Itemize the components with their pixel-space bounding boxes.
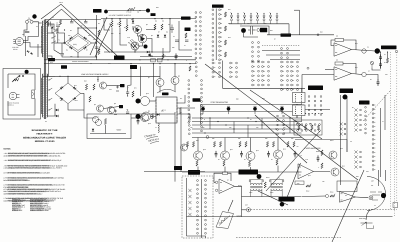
svg-text:+: + [126,109,127,111]
resistor R96 [304,125,306,130]
resistor R80 [13,78,19,81]
svg-text:0-05 COLLECTOR SWEEP: 0-05 COLLECTOR SWEEP [30,201,50,203]
title line 4 [35,140,55,142]
label SWEEP SUPPLY [109,15,132,17]
svg-text:4.7K 2W: 4.7K 2W [126,11,131,13]
svg-text:100: 100 [88,35,90,37]
svg-text:A MILL EQUAL FOR THE PARTICULA: A MILL EQUAL FOR THE PARTICULAR CIRCUIT … [4,167,63,169]
resistor R9 [161,24,163,30]
wire long diagonal A [41,4,119,57]
note line 3 [4,160,62,162]
switch SW9 X contacts upper [354,108,361,131]
svg-text:1: 1 [230,12,231,14]
connector J2 box [293,105,306,116]
switch SW9b X contacts [340,123,346,136]
node U5 out [369,196,373,200]
label mode switch (black) [174,166,182,170]
wire HV rail vertical [96,15,98,60]
node U2 in [307,67,309,69]
svg-text:Q8: Q8 [178,75,180,77]
wire cal res [12,76,19,82]
svg-text:D22: D22 [60,100,63,102]
diode D6 [132,21,134,23]
node BR1 out dots [64,27,97,57]
svg-text:● THIS SYMBOL INDICATES A WIR: ● THIS SYMBOL INDICATES A WIRE PASS CONN… [4,184,65,186]
wire U2 out right [366,75,378,81]
svg-text:100: 100 [68,35,70,37]
svg-text:Q2: Q2 [151,35,153,37]
svg-text:Q13: Q13 [283,148,286,150]
svg-text:U4: U4 [227,179,229,181]
capacitor C22 [267,151,270,158]
AC plug P2 [9,92,19,100]
wire cluster bottom [244,33,259,37]
terminal strip TS3b [195,62,197,77]
diode D2 [83,37,86,40]
svg-text:- ALL RESISTORS ARE 1/2 WATT: - ALL RESISTORS ARE 1/2 WATT UNLESS OTHE… [4,153,66,155]
winding taps arrows [48,78,52,110]
svg-text:AND CONTROLLED ART IN OHMS (K=: AND CONTROLLED ART IN OHMS (K=1000 OHMS,… [4,155,61,157]
svg-text:● THIS SYMBOL INDICATES A JUN: ● THIS SYMBOL INDICATES A JUNCTION OF CL… [4,177,64,179]
IC1 block [155,97,177,123]
transistor Q21 [97,105,104,112]
switch SW10 shaft 2 [200,179,202,238]
wire lv link 3 [107,85,121,87]
wire Q11 collector [224,138,226,152]
resistor R31 emitter [223,161,225,167]
svg-text:D3: D3 [66,49,68,51]
transformer T1 primary winding upper [41,21,44,57]
svg-text:22K: 22K [283,127,286,129]
potentiometer VR8 [343,95,348,100]
wire lv vert b [128,67,131,86]
box bias supply outline [295,181,304,185]
connector J1 box [293,93,306,103]
wire chop riser 1 [340,95,342,185]
node U2 out [362,72,366,76]
svg-text:+12: +12 [296,146,298,148]
screen grid node [104,10,108,14]
wire BR2 bottom [68,104,84,110]
svg-text:F1: F1 [28,17,30,19]
resistor R61 [89,96,91,102]
svg-text:D8: D8 [166,31,168,33]
svg-text:1 MEG 2 STEP CURRENT: 1 MEG 2 STEP CURRENT [30,210,49,212]
label -27V (black) [48,58,55,61]
junction dot row under SW8 [298,113,322,114]
switch SW7 lower col B [283,115,285,135]
note line 5 [4,167,63,169]
svg-text:POWER TRANSFORMER: POWER TRANSFORMER [72,61,88,63]
diode D22 [60,97,63,100]
capacitor C41 plus [114,110,117,115]
svg-text:STEP GENERATOR: STEP GENERATOR [211,102,228,104]
table row 6 col 2 [30,208,51,210]
wire sweep lower rail [140,56,192,58]
capacitor C21 [240,151,243,158]
switch SW10 X contacts [188,189,191,216]
transistor Q10 [194,151,203,160]
wire U1 fb left [331,40,335,46]
table row 1 mass [12,199,46,200]
transformer T1 inner winding upper [40,26,43,53]
switch SW4 col A [252,42,254,62]
potentiometer VR3 [253,106,257,114]
svg-text:1M: 1M [336,35,338,37]
svg-text:1W: 1W [137,11,139,13]
transistor Q23 [156,79,164,87]
wire switch to transformer [33,22,39,37]
op-amp U5 [340,192,356,203]
note line 1 text mass [8,153,49,154]
svg-text:C40: C40 [109,89,112,91]
note line 6 [4,172,51,174]
capacitor C15 [84,22,87,23]
table row 2 col 2 [30,201,50,203]
svg-text:1K: 1K [271,159,273,161]
capacitor C9 electrolytic [241,28,246,33]
wire secondary tap 1 [48,23,52,25]
svg-text:LOW VOLTAGE POWER SUPPLY: LOW VOLTAGE POWER SUPPLY [81,74,109,76]
label BR1 rating [73,44,77,46]
svg-text:BOARD CONNECTOR TERMINAL.: BOARD CONNECTOR TERMINAL. [4,179,31,181]
heatsink Q3 scribble [130,39,140,51]
svg-text:EXT: EXT [245,204,248,206]
node lower rail [151,56,176,57]
node cal [19,75,24,77]
op-amp U3 chop [298,164,314,179]
note line 7 [4,177,64,179]
svg-text:R21: R21 [355,43,358,45]
diode D8 [164,35,166,37]
node rails dots [48,59,191,64]
capacitor C2 doubler [49,22,51,27]
terminal strip TS2 [188,116,190,135]
wire step rail 1 [192,117,302,119]
wire lv riser x48 [48,61,50,76]
svg-text:2.2K: 2.2K [127,37,130,39]
svg-text:Q31: Q31 [342,165,345,167]
diode D3 [69,46,72,49]
resistor R46 [266,142,268,148]
potentiometer VR10 position [361,222,374,229]
wire sweep inner 2 [111,19,113,21]
wire fuse drop [24,23,27,36]
label LOW VOLTAGE POWER SUPPLY [81,74,109,76]
neon lamp NE1 [32,90,35,99]
wire crt to U4 [228,200,233,212]
connector J3 [246,208,250,212]
svg-text:+300V: +300V [116,129,121,131]
label STEP ZERO (black) [359,101,370,105]
wire step rail 5 [192,132,302,134]
note line 4 [4,165,68,167]
bridge rectifier BR1 outline [65,34,92,53]
note line 3 text mass [8,160,51,161]
table row 5 mass [12,206,43,207]
label TS3 (black) [193,98,201,102]
node r10 [127,10,140,11]
svg-text:NOTES:: NOTES: [4,148,12,150]
wire bottom dashed [236,237,341,239]
wire c15 stub [85,20,87,22]
table row 4 mass [12,205,42,206]
table row 2 col 1 [12,201,23,203]
wire U4 fb [214,173,223,182]
svg-text:D4: D4 [86,49,88,51]
wire Q13 emitter [277,166,279,173]
wire diagonal cross C [90,17,107,55]
svg-text:Q5: Q5 [94,104,96,106]
note line 12 text mass [8,191,47,192]
table row 1 col 1 [12,199,26,201]
wire long diagonal B [45,9,110,52]
svg-text:J4: J4 [382,121,384,123]
svg-text:D7: D7 [158,31,160,33]
svg-text:D30: D30 [356,176,359,178]
wire plug to fuse [24,37,39,41]
resistor R12 range [224,26,226,31]
inductor L1 [158,123,159,133]
wire q cluster 3 [132,19,134,22]
label VERT ATTEN (black) [281,34,292,37]
wire Q11 emitter [224,167,226,173]
svg-text:Q7: Q7 [148,77,150,79]
svg-text:22K: 22K [229,127,232,129]
wire right riser B [384,95,386,130]
note line 2 text mass [8,155,47,156]
label HORIZ SELECTOR (black) [308,86,323,91]
svg-text:Q10: Q10 [203,149,206,151]
handwritten change note line 2 [148,138,160,143]
resistor R113 [330,194,335,197]
switch SW1 knob [32,14,36,18]
switch SW10 col A [197,180,199,235]
note line 13 text mass [8,193,37,194]
svg-text:5: 5 [256,12,257,14]
svg-text:15: 15 [384,62,386,64]
svg-text:Q8: Q8 [148,110,150,112]
resistor R91 feedback box [335,62,343,65]
wire hv inner 2 [62,55,78,57]
transistor Q11 [221,151,230,160]
resistor R74 [179,108,181,114]
svg-text:R13: R13 [228,37,231,39]
capacitor C51 [379,61,382,68]
diode D21 [73,86,76,89]
CRT grid terminal [381,193,386,198]
svg-text:ETCHED CIRCUIT BOARD FOIL.: ETCHED CIRCUIT BOARD FOIL. [4,186,30,188]
label 60Hz [13,49,17,51]
step rail vertical drops [210,118,290,138]
wire to terminals [169,19,171,52]
label bias (black) [162,93,169,96]
title line 3 [23,137,66,140]
wire BR2 top [67,76,69,83]
label +27V (black) [61,65,67,69]
svg-text:1M: 1M [336,59,338,61]
transformer T1 primary winding lower [41,74,44,117]
svg-text:R112: R112 [306,190,309,192]
diode D4 [83,46,86,49]
node c11 left [257,29,260,32]
svg-text:R11: R11 [228,9,231,11]
switch SW8 col 3 [314,96,316,116]
component value annotations [22,2,388,207]
table row 6 col 1 [12,208,21,210]
handwritten change note line 1 [144,133,156,138]
svg-text:O THIS SYMBOL INDICATES A SOL: O THIS SYMBOL INDICATES A SOLDER LUG AND… [4,189,66,191]
wire U5 out [356,196,369,199]
wire sweep vertical 2 [120,28,127,46]
switch SW3 contact row [231,13,279,24]
wire right riser C dotted [390,52,392,209]
capacitor C30 [137,118,140,125]
wire c14 stub [71,20,73,22]
wire emitter Q3 [134,50,136,52]
label -12V reg (black) [119,105,123,108]
label +12V (black) [130,65,137,69]
wire Q12 collector [250,138,252,152]
wire step rail 4 [192,128,302,130]
wire ic link 2 [151,116,157,118]
capacitor C42 [126,90,129,96]
potentiometer VR11 [370,61,373,67]
wire U2 in [302,74,334,76]
wire U5 in [302,195,326,198]
title line 2 [36,133,52,135]
diode D20 [60,86,63,89]
handwriting underline [146,136,159,143]
wire r17 up [162,48,164,54]
svg-text:R: R [204,119,205,121]
svg-text:7: 7 [269,12,270,14]
node j2 [395,50,397,52]
resistor R5 [111,21,113,27]
connector J5 [393,203,398,208]
capacitor C52 [377,79,380,86]
wire sweep bottom rail [104,51,170,53]
wire SW3 common rail [229,23,289,25]
svg-text:R10: R10 [156,7,159,9]
switch SW2 wafer col B [219,9,222,61]
wire hv inner 1 [61,43,63,54]
svg-text:POSITION: POSITION [359,218,366,220]
diode D12 [92,129,94,131]
resistor R50 [104,119,106,125]
svg-text:CRT: CRT [371,180,374,182]
svg-text:SEMICONDUCTOR CURVE TRACER: SEMICONDUCTOR CURVE TRACER [23,137,66,140]
svg-text:1K: 1K [218,159,220,161]
svg-text:0/80 STEPS PER FAMILY: 0/80 STEPS PER FAMILY [30,203,49,205]
wire ext dashed [251,208,397,210]
transistor Q2 wedge [141,37,146,42]
capacitor C43 [126,112,129,113]
table row 7 col 1 [12,210,22,212]
switch SW8 col 1 [302,96,304,116]
capacitor C23 [294,151,297,158]
wire chop riser 2 [346,98,348,152]
title line 1 [32,129,58,131]
switch SW7 wafer col D [297,61,299,90]
svg-text:6.3: 6.3 [45,121,47,123]
resistor R110 [264,182,266,188]
wire tap link [51,24,53,33]
table row 6 mass [12,208,44,209]
wire U2 fb loop [343,64,356,74]
wire ic link 1 [150,100,157,102]
arrow tap [51,26,54,29]
resistor R17 [162,54,164,59]
svg-text:1K: 1K [244,159,246,161]
wire U1 out [352,50,376,52]
svg-text:10K: 10K [238,138,241,140]
transistor Q9 [181,144,188,151]
node BR1 left [64,42,66,44]
svg-text:IN: IN [250,119,251,121]
capacitor C1 line filter [25,32,30,33]
wire long diagonal D4 [255,115,307,163]
diode D1 [69,37,72,40]
svg-text:1K: 1K [370,79,372,81]
node lv caps [127,95,128,110]
terminal strip TS3 [201,80,203,132]
wire long diagonal D1b [250,90,322,139]
wire crt feed 2 [385,170,387,181]
wire U4 out [235,186,242,216]
svg-text:C5: C5 [93,39,95,41]
node U1 out [362,49,366,53]
capacitor C14 [70,22,73,23]
svg-text:L1: L1 [155,127,157,129]
transistor Q13 [274,150,283,159]
capacitor C40 plus [116,86,119,92]
label STEPS control (black) [188,170,200,175]
svg-text:.05: .05 [56,22,58,24]
svg-text:240V: 240V [270,192,273,194]
diode D23 [73,97,76,100]
svg-text:R6: R6 [117,23,119,25]
wire c50 drop [380,52,382,69]
svg-text:D6: D6 [131,19,133,21]
wire U4 fb right [228,173,232,181]
switch SW7 lower col A [277,115,279,135]
CRT vert plate terminal [375,48,380,53]
switch SW8 col 4 [320,96,322,116]
svg-text:47K: 47K [190,127,193,129]
resistor R72 [132,91,134,97]
box chop outline [295,140,347,153]
wire tap arrows [52,24,58,30]
terminal E2 [144,45,148,49]
diode D10 [148,54,150,57]
switch SW10 shaft [186,178,188,236]
wire q cluster 4 [132,26,135,30]
svg-text:12: 12 [384,54,386,56]
wire sweep rail 2 [108,10,148,12]
resistor R6 [119,21,121,27]
op-amp U2 horizontal [334,67,352,80]
op-amp U1 vertical [334,43,352,56]
svg-text:C52: C52 [385,74,388,76]
wire secondary tap 5 [48,104,55,116]
svg-text:Q25: Q25 [146,93,149,95]
wire BR1 in [54,42,65,44]
label capacitor C11 (black) [260,28,267,33]
svg-text:1A: 1A [36,26,38,28]
switch SW4 col C [281,48,283,59]
resistor R52 [151,114,153,119]
